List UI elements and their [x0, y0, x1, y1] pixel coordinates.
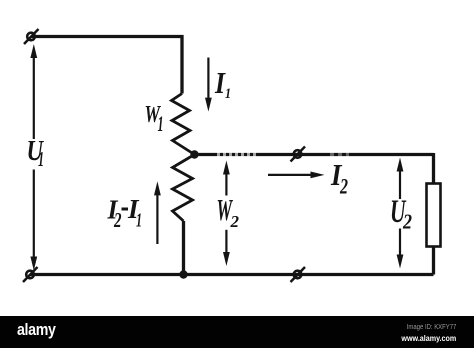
terminal bottom-middle (on bottom rail) [291, 267, 306, 282]
svg-text:1: 1 [38, 147, 44, 171]
W2 measurement arrow (double headed) [223, 161, 230, 267]
wire top horizontal [31, 35, 184, 38]
svg-text:1: 1 [225, 86, 231, 102]
watermark fade over tap wire [217, 151, 349, 158]
current arrow I2 (right) [268, 172, 325, 179]
svg-text:2: 2 [402, 210, 412, 234]
node tap (junction dot at tap) [190, 150, 198, 158]
wire tap to load (middle horizontal) [195, 153, 434, 156]
current arrow I1 (down) [205, 58, 212, 112]
wire load to bottom rail [432, 246, 435, 275]
svg-text:1: 1 [158, 111, 164, 136]
current arrow I2-I1 (up) [154, 181, 161, 244]
wire bottom rail [30, 273, 434, 276]
terminal middle (on tap wire) [291, 147, 306, 162]
U1 measurement arrow (left, double headed) [30, 44, 37, 271]
wire resistor bottom to bottom rail [182, 221, 185, 275]
svg-text:2: 2 [113, 208, 121, 232]
svg-text:2: 2 [230, 212, 240, 231]
svg-text:1: 1 [136, 210, 142, 232]
resistor W1 (upper winding) [172, 94, 195, 155]
resistor R load (rectangle) [427, 184, 441, 247]
terminal bottom-left [23, 267, 38, 282]
wire top-right vertical down to resistor [180, 35, 183, 94]
terminal top-left [24, 29, 39, 44]
wire right vertical into load [432, 153, 435, 184]
resistor W2 (lower winding) [173, 155, 195, 222]
footer bar [0, 316, 474, 348]
svg-text:2: 2 [339, 174, 348, 199]
node bottom junction dot [179, 270, 187, 278]
U2 measurement arrow (double headed) [397, 158, 404, 269]
